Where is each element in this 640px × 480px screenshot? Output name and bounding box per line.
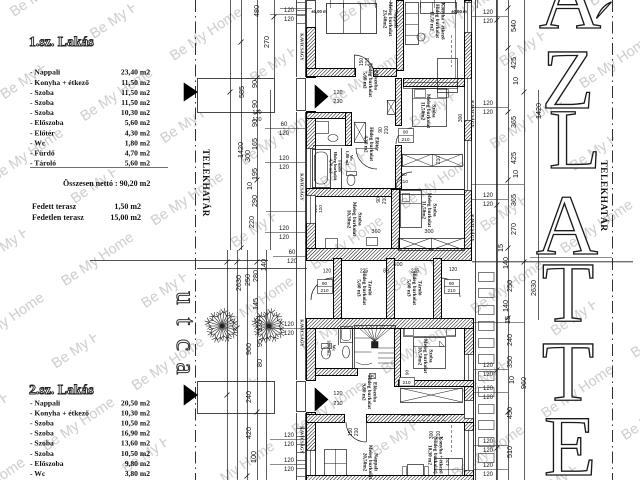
svg-text:5,60 m2: 5,60 m2 bbox=[125, 118, 151, 127]
svg-text:a: a bbox=[171, 363, 201, 375]
storage door dims left box bbox=[318, 280, 333, 294]
svg-text:TELEKHATÁR: TELEKHATÁR bbox=[598, 160, 610, 231]
svg-text:165: 165 bbox=[250, 138, 259, 150]
unit1 door szoba-szoba bbox=[396, 172, 412, 188]
svg-text:4,30 m2: 4,30 m2 bbox=[363, 135, 369, 153]
svg-text:120: 120 bbox=[483, 193, 494, 199]
svg-text:120: 120 bbox=[279, 156, 290, 162]
svg-text:4,70 m2: 4,70 m2 bbox=[125, 149, 151, 158]
site line upper bbox=[90, 260, 268, 262]
svg-text:290: 290 bbox=[250, 195, 259, 207]
svg-text:5,60 m3: 5,60 m3 bbox=[356, 279, 362, 297]
unit1 wc right wall upper bbox=[346, 113, 352, 146]
gravel bed strip right bbox=[475, 0, 477, 480]
terrace rows bbox=[32, 202, 141, 222]
svg-text:420: 420 bbox=[445, 458, 451, 466]
chain slash ticks left bbox=[272, 15, 277, 20]
svg-text:225: 225 bbox=[411, 269, 420, 275]
svg-text:145: 145 bbox=[251, 298, 260, 310]
unit2 kitchen counter dashed bbox=[402, 415, 447, 417]
svg-text:120: 120 bbox=[333, 90, 342, 96]
svg-text:510: 510 bbox=[505, 446, 514, 458]
property boundary line left (dash-dot) bbox=[195, 0, 197, 480]
svg-text:u: u bbox=[171, 291, 201, 305]
dim connector lines bbox=[471, 184, 524, 186]
storage left terrace door bbox=[311, 278, 333, 300]
svg-text:15: 15 bbox=[496, 244, 505, 252]
svg-text:120: 120 bbox=[483, 202, 494, 208]
svg-text:250: 250 bbox=[505, 280, 514, 292]
unit1 left wall lower bbox=[307, 112, 316, 249]
gravel bed ladder right bbox=[479, 273, 495, 282]
unit1 window left top bbox=[307, 1, 316, 28]
unit1 bed szoba right-mid headboard bbox=[404, 83, 458, 89]
svg-text:E: E bbox=[544, 398, 597, 480]
svg-text:10,50 m2: 10,50 m2 bbox=[121, 419, 150, 428]
svg-text:250: 250 bbox=[243, 274, 252, 286]
svg-text:120: 120 bbox=[284, 433, 295, 439]
svg-text:80: 80 bbox=[255, 359, 264, 367]
svg-text:90: 90 bbox=[250, 100, 259, 108]
svg-text:11,50 m2: 11,50 m2 bbox=[121, 88, 150, 97]
svg-text:240: 240 bbox=[244, 391, 253, 403]
svg-text:- Tároló: - Tároló bbox=[30, 159, 56, 168]
svg-text:280: 280 bbox=[251, 270, 260, 282]
svg-text:20,50m2: 20,50m2 bbox=[362, 453, 368, 472]
svg-text:140: 140 bbox=[259, 259, 268, 271]
svg-text:- Szoba: - Szoba bbox=[30, 88, 54, 97]
svg-text:1,50 m2: 1,50 m2 bbox=[114, 202, 141, 211]
svg-text:2.sz. Lakás: 2.sz. Lakás bbox=[29, 382, 94, 397]
svg-text:2630: 2630 bbox=[234, 275, 243, 291]
svg-text:±0,00 m: ±0,00 m bbox=[451, 9, 467, 14]
boundary marker triangle 2 bbox=[184, 385, 198, 405]
unit2 kitchen cabinets bbox=[435, 459, 463, 480]
unit1 stool b bbox=[367, 238, 378, 246]
svg-text:210: 210 bbox=[436, 156, 442, 165]
unit1 chimney bbox=[388, 101, 396, 115]
svg-text:10,30m2: 10,30m2 bbox=[346, 210, 352, 229]
svg-text:225: 225 bbox=[360, 269, 369, 275]
top edge ticks bbox=[280, 8, 312, 10]
unit1 wc sink bbox=[328, 135, 338, 142]
svg-text:960: 960 bbox=[519, 377, 528, 389]
unit1 shower box bbox=[355, 123, 366, 143]
svg-text:120: 120 bbox=[279, 226, 290, 232]
svg-text:120: 120 bbox=[483, 110, 494, 116]
svg-text:270: 270 bbox=[262, 36, 271, 48]
unit1 entry column bbox=[297, 79, 306, 111]
walkway rect to entry 2 bbox=[198, 382, 275, 414]
svg-text:11,50m2: 11,50m2 bbox=[421, 201, 427, 220]
unit1 interior wall mid bbox=[307, 189, 398, 197]
svg-text:120: 120 bbox=[284, 322, 295, 328]
svg-text:- Szoba: - Szoba bbox=[30, 108, 54, 117]
unit2 right wall window b bbox=[465, 431, 474, 471]
unit1 interior wall under nappali bbox=[307, 69, 356, 77]
unit1 right wall bbox=[465, 1, 472, 249]
svg-text:450: 450 bbox=[505, 407, 514, 419]
svg-text:210: 210 bbox=[320, 288, 328, 294]
svg-text:90: 90 bbox=[322, 281, 328, 287]
svg-text:500: 500 bbox=[393, 262, 402, 268]
svg-text:120: 120 bbox=[483, 472, 494, 478]
unit2 right wall bbox=[465, 329, 474, 480]
room schedule unit 2 bbox=[30, 398, 150, 478]
unit2 entry arrow bbox=[315, 388, 328, 411]
svg-text:210: 210 bbox=[447, 288, 455, 294]
site line lower right of boundary bbox=[197, 268, 307, 270]
svg-text:KAVICSÁGY: KAVICSÁGY bbox=[300, 426, 305, 454]
svg-text:10: 10 bbox=[511, 170, 520, 178]
svg-text:- Fürdő: - Fürdő bbox=[30, 149, 55, 158]
svg-text:120: 120 bbox=[483, 363, 494, 369]
svg-text:9,80 m2: 9,80 m2 bbox=[361, 383, 367, 401]
svg-text:140: 140 bbox=[501, 300, 510, 312]
unit2 left wall lower bbox=[307, 413, 316, 480]
svg-text:15,00 m2: 15,00 m2 bbox=[110, 213, 141, 222]
svg-text:20,50 m2: 20,50 m2 bbox=[121, 398, 150, 407]
svg-text:120: 120 bbox=[483, 372, 494, 378]
unit1 right wall window c bbox=[465, 141, 472, 191]
unit1 washer bbox=[316, 122, 329, 134]
svg-text:90: 90 bbox=[401, 172, 407, 178]
site line right section bbox=[472, 261, 633, 263]
svg-text:135: 135 bbox=[255, 320, 264, 332]
svg-text:300: 300 bbox=[424, 229, 433, 235]
unit1 right wall window a bbox=[465, 3, 472, 33]
gravel bed rects top left bbox=[297, 3, 306, 11]
svg-text:240: 240 bbox=[505, 334, 514, 346]
unit2 bidet bbox=[343, 346, 350, 358]
svg-text:120: 120 bbox=[279, 131, 290, 137]
unit2 entry column bbox=[297, 382, 306, 412]
unit1 interior wall nappali-konyha bbox=[397, 1, 404, 71]
unit2 bottom wall cut bbox=[307, 476, 474, 480]
unit2 dining table bbox=[408, 465, 424, 480]
svg-text:5,60 m3: 5,60 m3 bbox=[406, 279, 412, 297]
unit2 stairs chimney bbox=[370, 374, 376, 379]
svg-text:4,30 m2: 4,30 m2 bbox=[125, 128, 151, 137]
gravel bed strip left bbox=[296, 0, 298, 77]
unit1 wc toilet bbox=[347, 175, 355, 186]
unit2 top wall window a bbox=[313, 320, 341, 327]
svg-text:3,80 m2: 3,80 m2 bbox=[125, 469, 151, 478]
unit1 right wall window b bbox=[465, 79, 472, 121]
unit1 wall under entry bbox=[307, 113, 346, 119]
unit1 stool a bbox=[326, 239, 338, 249]
unit1 dining table bbox=[438, 59, 458, 93]
svg-text:15: 15 bbox=[503, 316, 512, 324]
svg-text:- Előszoba: - Előszoba bbox=[30, 459, 64, 468]
svg-text:120: 120 bbox=[318, 205, 324, 213]
svg-text:10: 10 bbox=[507, 376, 516, 384]
svg-text:210: 210 bbox=[402, 380, 410, 386]
boundary marker triangle 1 bbox=[184, 83, 198, 101]
svg-text:120: 120 bbox=[284, 458, 295, 464]
svg-text:5,60 m2: 5,60 m2 bbox=[125, 159, 151, 168]
unit1 divider furdo-wc2 bbox=[341, 148, 343, 188]
svg-text:16,90 m2: 16,90 m2 bbox=[121, 429, 150, 438]
svg-text:210: 210 bbox=[354, 428, 360, 437]
svg-text:- Szoba: - Szoba bbox=[30, 98, 54, 107]
svg-text:195: 195 bbox=[250, 168, 259, 180]
svg-text:TELEKHATÁR: TELEKHATÁR bbox=[201, 149, 211, 217]
svg-text:365: 365 bbox=[509, 116, 518, 128]
unit2 winder stairs bbox=[355, 326, 396, 369]
unit1 wardrobe szoba right bbox=[403, 155, 463, 167]
unit1 bed szoba right-mid bbox=[413, 89, 447, 127]
room schedule unit 1 bbox=[30, 68, 150, 168]
svg-text:10,30 m2: 10,30 m2 bbox=[121, 108, 150, 117]
unit2 szoba bed bbox=[414, 338, 446, 369]
svg-text:60: 60 bbox=[281, 122, 288, 128]
storage wall left bbox=[334, 259, 342, 319]
svg-text:120: 120 bbox=[483, 439, 494, 445]
unit1 central wall upper bbox=[396, 79, 402, 126]
walkway rect to entry 1 bbox=[198, 79, 275, 113]
svg-text:90: 90 bbox=[405, 370, 411, 376]
unit1 bottom wall bbox=[307, 249, 472, 261]
tree 1 bbox=[205, 308, 238, 343]
svg-text:13,60 m2: 13,60 m2 bbox=[121, 439, 150, 448]
svg-text:120: 120 bbox=[284, 17, 295, 23]
unit1 crossed box bbox=[399, 239, 465, 251]
svg-text:210: 210 bbox=[401, 137, 409, 143]
svg-text:Összesen nettó : 90,20 m2: Összesen nettó : 90,20 m2 bbox=[63, 179, 150, 188]
unit1 door eloter-furdo bbox=[356, 148, 377, 169]
svg-text:1,80 m2: 1,80 m2 bbox=[345, 151, 350, 166]
svg-text:t: t bbox=[171, 318, 201, 326]
svg-text:425: 425 bbox=[509, 57, 518, 69]
svg-text:270: 270 bbox=[509, 223, 518, 235]
svg-text:90: 90 bbox=[403, 130, 409, 136]
svg-text:- Wc: - Wc bbox=[30, 138, 46, 147]
svg-text:120: 120 bbox=[483, 463, 494, 469]
svg-text:120: 120 bbox=[323, 269, 332, 275]
svg-text:210: 210 bbox=[333, 99, 342, 105]
svg-text:11,50m2: 11,50m2 bbox=[420, 102, 426, 121]
svg-text:- Nappali: - Nappali bbox=[30, 398, 60, 407]
svg-text:- Előszoba: - Előszoba bbox=[30, 118, 64, 127]
svg-text:120: 120 bbox=[483, 101, 494, 107]
unit1 divider wc-furdo bbox=[313, 145, 345, 147]
svg-text:120: 120 bbox=[279, 235, 290, 241]
svg-text:KAVICSÁGY: KAVICSÁGY bbox=[300, 319, 305, 347]
svg-text:960: 960 bbox=[244, 343, 253, 355]
svg-text:- Előtér: - Előtér bbox=[30, 128, 55, 137]
unit1 entry arrow bbox=[315, 85, 328, 108]
svg-text:2630: 2630 bbox=[529, 280, 538, 296]
svg-text:- Konyha + étkező: - Konyha + étkező bbox=[30, 408, 89, 417]
unit2 interior wall horizontal bbox=[307, 415, 345, 423]
property boundary line right (dash-dot) bbox=[612, 0, 614, 480]
storage wall right bbox=[434, 259, 442, 319]
unit1 sofa bbox=[327, 4, 377, 34]
svg-text:120: 120 bbox=[284, 8, 295, 14]
unit1 interior wall szoba-szoba bottom bbox=[392, 190, 400, 249]
svg-text:120: 120 bbox=[279, 165, 290, 171]
svg-text:10: 10 bbox=[511, 77, 520, 85]
utca street name bbox=[171, 291, 201, 374]
svg-text:KAVICSÁGY: KAVICSÁGY bbox=[300, 173, 305, 201]
svg-text:10,30 m2: 10,30 m2 bbox=[427, 445, 433, 465]
unit2 bath tub small bbox=[341, 327, 353, 343]
svg-text:300: 300 bbox=[458, 114, 464, 123]
svg-text:120: 120 bbox=[449, 267, 458, 273]
unit1 bed szoba right-bottom bbox=[401, 191, 422, 228]
svg-text:140: 140 bbox=[501, 257, 510, 269]
unit2 wc toilet bbox=[322, 347, 331, 359]
svg-text:- Szoba: - Szoba bbox=[30, 419, 54, 428]
chain slash ticks right bbox=[506, 6, 511, 11]
svg-text:4,70 m2: 4,70 m2 bbox=[329, 159, 334, 174]
big letters AZLATTE bbox=[536, 0, 601, 480]
unit2 szoba bed headboard bbox=[404, 329, 456, 337]
unit2 crossed wardrobe bbox=[401, 389, 463, 403]
svg-text:- Nappali: - Nappali bbox=[30, 68, 60, 77]
svg-text:11,50 m2: 11,50 m2 bbox=[121, 78, 150, 87]
svg-text:3,80 m2: 3,80 m2 bbox=[327, 340, 332, 356]
svg-text:Fedett terasz: Fedett terasz bbox=[32, 202, 77, 211]
dimension chain lines left bbox=[227, 250, 229, 480]
storage wall middle bbox=[387, 259, 395, 319]
tree 2 bbox=[252, 308, 285, 343]
storage door dims right box bbox=[445, 280, 460, 294]
unit2 door nappali bbox=[346, 422, 366, 442]
unit1 left wall window mid bbox=[307, 149, 316, 189]
unit1 central wall lower bbox=[396, 146, 402, 189]
svg-text:120: 120 bbox=[284, 442, 295, 448]
separator line bbox=[30, 166, 168, 168]
svg-text:10,50 m2: 10,50 m2 bbox=[121, 449, 150, 458]
svg-text:23,40m2: 23,40m2 bbox=[382, 10, 388, 29]
svg-text:585: 585 bbox=[237, 86, 246, 98]
accent of top A bbox=[597, 2, 612, 19]
unit2 top wall window b bbox=[405, 320, 433, 327]
svg-text:120: 120 bbox=[252, 110, 261, 116]
svg-text:120: 120 bbox=[483, 395, 494, 401]
svg-text:95: 95 bbox=[255, 339, 264, 347]
svg-text:80: 80 bbox=[383, 269, 389, 275]
svg-text:- Szoba: - Szoba bbox=[30, 449, 54, 458]
unit2 sofa bbox=[325, 450, 347, 480]
unit2 right wall opening bbox=[465, 401, 474, 419]
unit1 interior wall konyha-szoba bbox=[404, 79, 465, 87]
unit1 left wall upper bbox=[307, 28, 316, 78]
svg-text:480: 480 bbox=[252, 5, 261, 17]
unit2 interior wall stairs-szoba bbox=[395, 329, 401, 387]
svg-text:220: 220 bbox=[247, 216, 256, 228]
svg-text:- Wc: - Wc bbox=[30, 469, 46, 478]
svg-text:±0,00 m: ±0,00 m bbox=[311, 9, 327, 14]
svg-text:1420: 1420 bbox=[236, 142, 245, 158]
svg-text:10: 10 bbox=[245, 182, 254, 190]
svg-text:10,30 m2: 10,30 m2 bbox=[121, 408, 150, 417]
svg-text:- Konyha + étkező: - Konyha + étkező bbox=[30, 78, 89, 87]
svg-text:- Szoba: - Szoba bbox=[30, 429, 54, 438]
svg-text:210: 210 bbox=[400, 179, 408, 185]
unit2 szoba door dim box bbox=[400, 378, 415, 387]
unit2 left wall upper bbox=[307, 329, 316, 381]
svg-text:120: 120 bbox=[483, 10, 494, 16]
svg-text:90: 90 bbox=[250, 80, 259, 88]
unit1 left wall window lower bbox=[307, 196, 316, 224]
svg-text:120: 120 bbox=[284, 467, 295, 473]
unit1 door nappali bbox=[354, 55, 374, 75]
unit2 wc walls bbox=[316, 369, 358, 376]
storage right door bbox=[441, 278, 460, 297]
svg-text:210: 210 bbox=[384, 126, 390, 135]
svg-text:120: 120 bbox=[483, 448, 494, 454]
svg-text:540: 540 bbox=[509, 20, 518, 32]
svg-text:- Szoba: - Szoba bbox=[30, 439, 54, 448]
unit2 top wall bbox=[307, 319, 474, 329]
svg-text:60: 60 bbox=[289, 250, 296, 256]
svg-text:23,40 m2: 23,40 m2 bbox=[121, 68, 150, 77]
svg-text:5,60 m2: 5,60 m2 bbox=[362, 71, 368, 89]
svg-text:210: 210 bbox=[333, 401, 342, 407]
svg-text:350: 350 bbox=[505, 356, 514, 368]
unit1 kitchen cabinets bbox=[406, 3, 419, 45]
svg-text:9,80 m2: 9,80 m2 bbox=[125, 459, 151, 468]
svg-text:100: 100 bbox=[249, 451, 258, 463]
svg-text:120: 120 bbox=[483, 19, 494, 25]
unit2 counter dash vertical bbox=[451, 420, 453, 452]
svg-text:11,50 m2: 11,50 m2 bbox=[121, 98, 150, 107]
svg-text:210: 210 bbox=[382, 196, 388, 205]
svg-text:11,50 m2: 11,50 m2 bbox=[429, 11, 435, 31]
svg-text:1.sz. Lakás: 1.sz. Lakás bbox=[29, 34, 94, 49]
svg-text:120: 120 bbox=[483, 386, 494, 392]
svg-text:1,80 m2: 1,80 m2 bbox=[125, 138, 151, 147]
svg-text:10,50m2: 10,50m2 bbox=[417, 347, 423, 366]
svg-text:210: 210 bbox=[365, 58, 371, 67]
svg-text:120: 120 bbox=[333, 391, 342, 397]
unit2 wall under szoba bbox=[399, 381, 474, 387]
svg-text:365: 365 bbox=[509, 194, 518, 206]
svg-text:L: L bbox=[549, 91, 602, 187]
svg-text:KAVICSÁGY: KAVICSÁGY bbox=[300, 33, 305, 61]
svg-text:120: 120 bbox=[252, 117, 261, 123]
svg-text:420: 420 bbox=[244, 427, 253, 439]
svg-text:120: 120 bbox=[284, 331, 295, 337]
svg-text:90: 90 bbox=[449, 281, 455, 287]
dimension chain lines right bbox=[497, 0, 499, 480]
unit1 door eloter-szoba bbox=[396, 128, 412, 144]
svg-text:360: 360 bbox=[371, 229, 380, 235]
unit2 right wall window a bbox=[465, 355, 474, 385]
unit1 bathtub bbox=[313, 150, 331, 188]
svg-text:c: c bbox=[171, 339, 201, 351]
svg-text:425: 425 bbox=[509, 152, 518, 164]
gravel bed ladder left bottom bbox=[297, 429, 306, 437]
svg-text:Fedetlen terasz: Fedetlen terasz bbox=[32, 213, 84, 222]
unit2 left wall window bottom bbox=[307, 451, 316, 477]
